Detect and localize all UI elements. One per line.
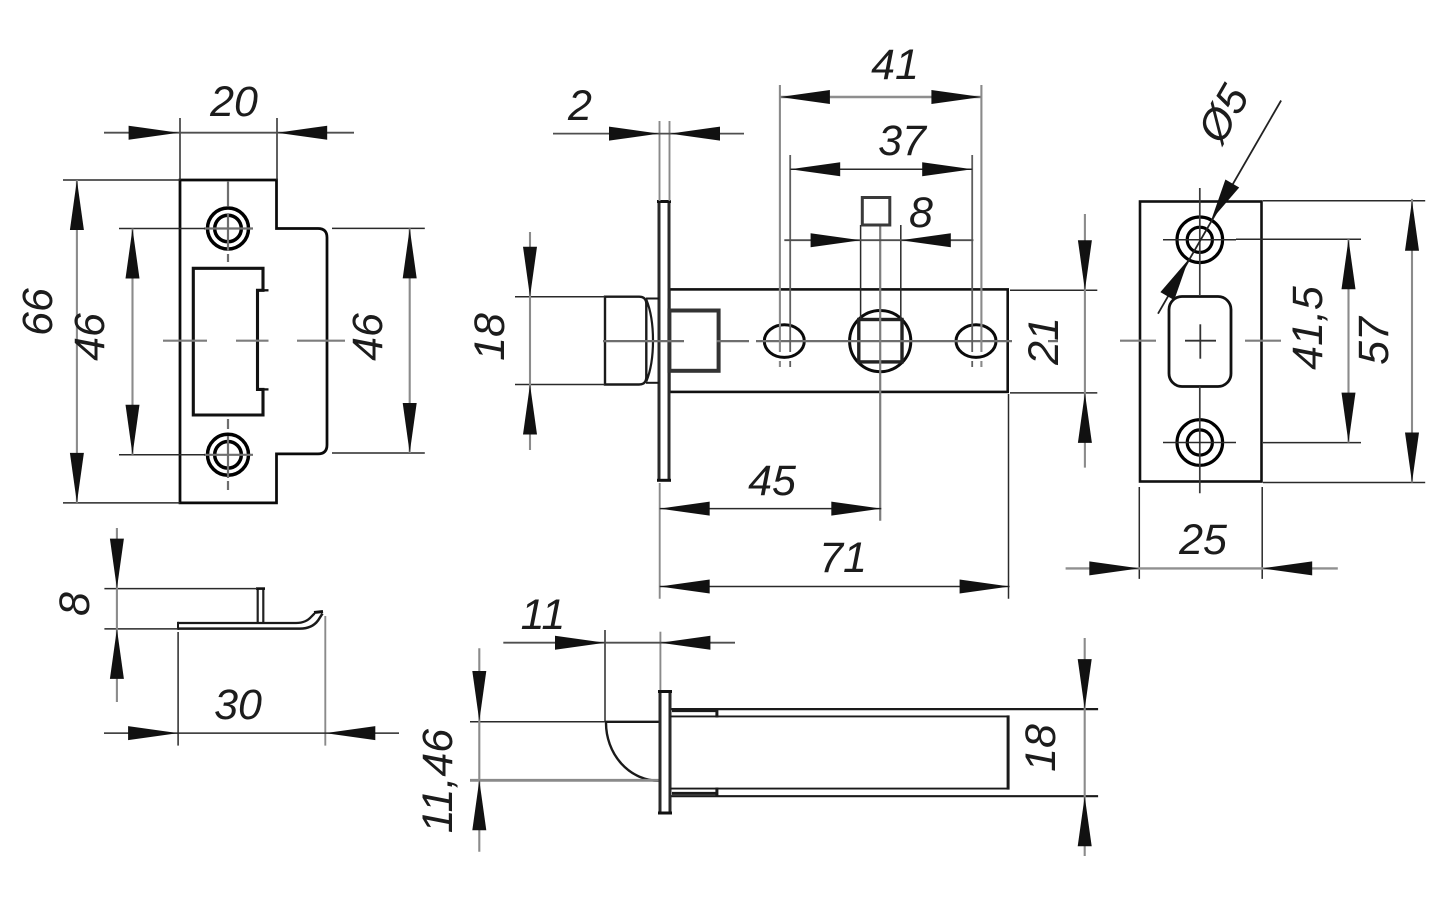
dim 46 left extension lines xyxy=(119,229,205,455)
dim 8 square line xyxy=(784,239,973,241)
dim 41 arrows xyxy=(780,90,830,104)
svg-text:25: 25 xyxy=(1178,516,1228,564)
oval right centerlines vertical xyxy=(980,85,982,367)
screw hole bottom outer xyxy=(208,434,249,475)
dim 71 arrows xyxy=(660,580,710,594)
latch bolt head xyxy=(605,297,646,385)
dim 46 right extension lines xyxy=(332,228,425,453)
dim 11 arrows xyxy=(555,636,605,650)
faceplate bottom tick xyxy=(658,812,672,815)
dim 8 square arrows xyxy=(811,233,861,247)
vertical centerline xyxy=(1199,188,1201,493)
strike plate outline xyxy=(180,180,327,503)
dim 21 arrows xyxy=(1078,240,1092,290)
oval hole left xyxy=(764,325,804,358)
svg-text:18: 18 xyxy=(466,313,514,361)
dim 18 bolt extension lines xyxy=(515,297,605,385)
dim 45 extension line left xyxy=(659,483,661,599)
dim 46 left line xyxy=(131,229,133,455)
dim 25 arrows xyxy=(1089,561,1139,575)
screw hole top inner xyxy=(215,215,242,242)
dim 2 line xyxy=(553,133,744,135)
screw top crosshair horizontal xyxy=(1163,239,1236,241)
dim 46 left arrows xyxy=(126,229,140,279)
dim 57 line xyxy=(1411,199,1413,483)
plate left end xyxy=(177,622,179,630)
dim 41,5 extension lines xyxy=(1236,239,1361,442)
dim 25 line xyxy=(1066,567,1338,569)
svg-text:11: 11 xyxy=(521,591,566,639)
body inner bottom edge xyxy=(671,788,1009,790)
body rectangle xyxy=(669,289,1007,392)
body outer top edge xyxy=(672,708,1099,710)
dim 41,5 arrows xyxy=(1342,239,1356,289)
cutout notch tick top xyxy=(258,289,269,291)
svg-text:18: 18 xyxy=(1017,724,1065,772)
bolt bottom tangent gray line xyxy=(470,779,660,782)
dim 30 extension lines xyxy=(177,632,179,746)
svg-text:8: 8 xyxy=(909,189,933,237)
spindle circle xyxy=(850,311,911,372)
dim 20 arrows xyxy=(129,126,179,140)
latch cutout window xyxy=(193,268,263,415)
dim 46 right line xyxy=(409,228,411,453)
faceplate right line xyxy=(669,691,672,814)
dim 37 line xyxy=(790,168,972,170)
dim 18 arrows xyxy=(1078,659,1092,709)
dim 8 extension lines xyxy=(104,589,257,629)
latch cutout rounded xyxy=(1169,297,1231,387)
svg-text:46: 46 xyxy=(344,313,392,361)
dia 5 arrows xyxy=(1211,180,1239,220)
dim 8 line xyxy=(116,528,118,702)
svg-text:20: 20 xyxy=(209,78,258,126)
dim 45 arrows xyxy=(660,502,710,516)
screw bottom crosshair horizontal xyxy=(1163,442,1236,444)
screw hole bottom outer xyxy=(1177,420,1223,466)
square symbol xyxy=(862,198,890,226)
dim 11,46 arrows xyxy=(472,671,486,721)
faceplate top tick xyxy=(658,690,672,693)
dim 37 arrows xyxy=(790,162,840,176)
dim 20 extension lines xyxy=(180,118,277,180)
dim 57 extension lines xyxy=(1263,201,1425,483)
dim 21 line xyxy=(1084,214,1086,468)
dim 11,46 line xyxy=(478,648,480,851)
dim 8 square extension lines xyxy=(861,225,901,319)
dim 66 line xyxy=(76,180,78,503)
dim 41 line xyxy=(780,96,982,98)
dim 66 arrows xyxy=(70,180,84,230)
svg-text:30: 30 xyxy=(214,681,262,729)
dim 46 right arrows xyxy=(403,228,417,278)
oval left centerlines vertical xyxy=(779,85,781,367)
dim 21 extension lines xyxy=(1010,290,1097,393)
dim 45 line xyxy=(660,508,882,510)
spindle vertical centerline xyxy=(879,226,881,521)
bolt slot bottom thick segment xyxy=(672,788,717,797)
faceplate bottom tick xyxy=(657,479,671,482)
svg-text:37: 37 xyxy=(878,117,928,165)
bent tab vertical xyxy=(258,589,264,623)
dim 66 extension lines xyxy=(63,180,180,503)
dim 18 bolt arrows xyxy=(523,247,537,297)
svg-text:41: 41 xyxy=(871,41,919,89)
cutout cross vertical xyxy=(1199,324,1201,358)
faceplate edge-on left line xyxy=(658,201,661,481)
dim 30 arrows xyxy=(128,726,178,740)
body inner top edge xyxy=(671,715,1009,717)
svg-text:66: 66 xyxy=(14,288,62,336)
dim 2 arrows xyxy=(609,127,659,141)
svg-text:46: 46 xyxy=(66,313,114,361)
oval hole right xyxy=(956,325,996,358)
svg-text:45: 45 xyxy=(748,457,797,505)
svg-text:41,5: 41,5 xyxy=(1284,285,1332,370)
screw hole top outer xyxy=(1177,217,1223,263)
cutout cross horizontal xyxy=(1185,340,1216,342)
svg-text:71: 71 xyxy=(819,534,867,582)
horizontal centerline dashes xyxy=(1120,340,1281,342)
faceplate edge-on right line xyxy=(668,201,671,481)
lip tip xyxy=(314,612,323,613)
dim 30 line xyxy=(104,732,399,734)
horizontal centerline xyxy=(603,340,1058,342)
bolt neck top xyxy=(646,298,659,300)
body inner right edge xyxy=(1007,715,1010,789)
faceplate top tick xyxy=(657,200,671,203)
svg-text:8: 8 xyxy=(51,592,99,616)
horizontal centerline dashes xyxy=(163,340,345,342)
dia 5 leader line xyxy=(1158,101,1281,314)
screw top crosshair horizontal xyxy=(204,227,253,229)
bolt top edge and extension xyxy=(470,721,605,723)
spindle square hole xyxy=(859,320,902,362)
dim 11 extension lines xyxy=(604,630,606,722)
plate profile top surface xyxy=(178,614,315,624)
dim 71 extension line right xyxy=(1008,394,1010,599)
svg-text:11,46: 11,46 xyxy=(414,729,462,833)
bolt nose contour xyxy=(646,300,653,382)
dim 18 bolt line xyxy=(529,232,531,450)
faceplate left line xyxy=(659,691,662,814)
screw hole top inner xyxy=(1187,227,1212,252)
dim 18 line xyxy=(1084,638,1086,856)
svg-text:2: 2 xyxy=(567,82,592,130)
dim 25 extension lines xyxy=(1139,487,1262,579)
dim 8 arrows xyxy=(110,539,124,589)
svg-text:21: 21 xyxy=(1020,317,1068,366)
screw hole top outer xyxy=(208,208,249,249)
dim 11 line xyxy=(503,642,735,644)
vertical centerline dashes xyxy=(227,181,229,490)
svg-text:57: 57 xyxy=(1350,315,1398,365)
dim 57 arrows xyxy=(1405,201,1419,251)
bent tab top tick xyxy=(256,587,265,590)
faceplate outline xyxy=(1140,202,1262,482)
bolt nose arc xyxy=(606,723,659,781)
screw bottom crosshair horizontal xyxy=(204,454,253,456)
bolt slot top thick segment xyxy=(672,709,717,718)
screw hole bottom inner xyxy=(1187,430,1212,455)
plate profile bottom surface with curled lip xyxy=(178,614,323,629)
dim 41,5 line xyxy=(1347,239,1349,442)
dim 71 line xyxy=(660,586,1010,588)
bolt neck bottom xyxy=(646,382,659,384)
dim 2 extension lines xyxy=(660,121,670,201)
dim 20 line xyxy=(104,132,354,134)
body outer bottom edge xyxy=(672,795,1099,797)
cutout notch tick bottom xyxy=(258,388,269,390)
bolt tail rectangle xyxy=(669,311,718,371)
screw hole bottom inner xyxy=(215,442,242,469)
